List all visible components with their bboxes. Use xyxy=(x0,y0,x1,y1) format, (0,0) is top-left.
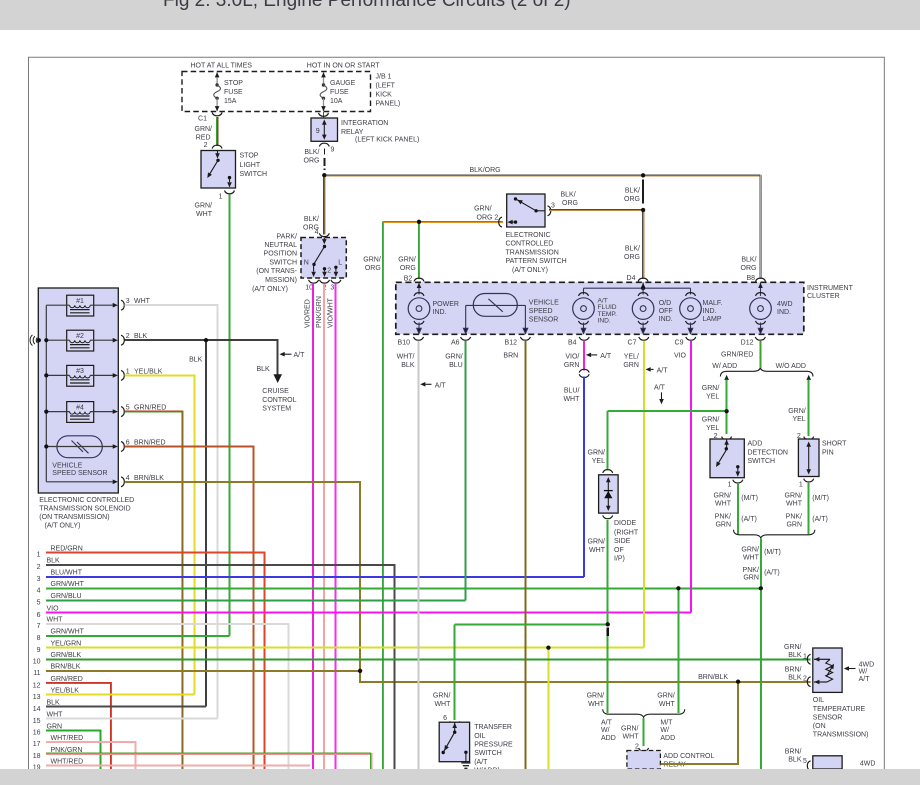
svg-text:BLK: BLK xyxy=(134,333,148,340)
svg-text:GRN/RED: GRN/RED xyxy=(721,352,753,359)
pin arrows at box edge xyxy=(113,303,118,308)
svg-text:YEL/GRN: YEL/GRN xyxy=(51,641,82,648)
svg-text:(M/T): (M/T) xyxy=(741,495,758,502)
wire 1 GRN/WHT stop light switch down to row 8 xyxy=(225,191,235,194)
svg-text:OF: OF xyxy=(614,547,624,554)
svg-text:BRN/: BRN/ xyxy=(785,666,802,673)
svg-text:PRESSURE: PRESSURE xyxy=(474,742,513,749)
BLK/ORG vertical to D4 xyxy=(642,210,644,279)
svg-text:A6: A6 xyxy=(451,339,460,346)
top pin cups B2 D4 B8 xyxy=(414,278,424,281)
row 10 GRN/BLK xyxy=(46,658,811,660)
lamp A/T FLUID TEMP IND xyxy=(573,293,595,334)
svg-text:WHT: WHT xyxy=(196,211,213,218)
svg-text:ORG: ORG xyxy=(304,157,320,164)
svg-text:OFF: OFF xyxy=(659,308,673,315)
BRN/BLK to oil temperature sensor xyxy=(736,680,740,684)
svg-text:9: 9 xyxy=(316,128,320,135)
svg-text:PARK/: PARK/ xyxy=(277,233,298,240)
svg-text:ORG: ORG xyxy=(400,265,416,272)
row 12 GRN/RED xyxy=(46,683,111,769)
svg-text:BLK: BLK xyxy=(47,558,61,565)
svg-text:MALF.: MALF. xyxy=(703,300,723,307)
svg-text:SWITCH: SWITCH xyxy=(269,259,297,266)
wire YEL/BLK pin1 xyxy=(125,375,195,694)
svg-text:C7: C7 xyxy=(628,339,637,346)
svg-text:6: 6 xyxy=(126,440,130,447)
svg-text:VIO: VIO xyxy=(674,353,687,360)
oil temperature sensor xyxy=(807,654,810,664)
svg-text:IND.: IND. xyxy=(703,308,717,315)
svg-text:18: 18 xyxy=(33,753,41,760)
svg-text:WHT: WHT xyxy=(715,501,732,508)
svg-text:A/T: A/T xyxy=(859,676,871,683)
svg-text:PIN: PIN xyxy=(822,449,834,456)
ground xyxy=(461,762,470,764)
svg-text:ADD: ADD xyxy=(660,735,675,742)
vehicle speed sensor (cluster) xyxy=(463,294,527,334)
svg-text:GRN/: GRN/ xyxy=(195,203,213,210)
svg-text:PNK/: PNK/ xyxy=(715,513,731,520)
svg-text:1: 1 xyxy=(126,368,130,375)
wire VIO/WHT pin 3 down xyxy=(335,284,337,769)
svg-text:ADD CONTROL: ADD CONTROL xyxy=(663,753,714,760)
svg-text:B8: B8 xyxy=(746,275,755,282)
B8 stub xyxy=(760,282,762,294)
svg-text:GAUGE: GAUGE xyxy=(330,80,356,87)
wire B10 WHT/BLK down xyxy=(418,341,420,769)
svg-text:1: 1 xyxy=(799,482,803,489)
svg-text:6: 6 xyxy=(443,715,447,722)
svg-text:(A/T): (A/T) xyxy=(764,569,780,576)
svg-text:VIO/: VIO/ xyxy=(565,354,579,361)
svg-text:(LEFT: (LEFT xyxy=(376,83,396,90)
svg-text:WHT: WHT xyxy=(563,396,580,403)
row 17 WHT/RED xyxy=(46,742,135,769)
row 4 GRN/WHT xyxy=(46,587,761,589)
black stub below junction xyxy=(606,628,609,636)
svg-text:GRN/BLK: GRN/BLK xyxy=(51,652,82,659)
svg-text:WHT: WHT xyxy=(659,701,676,708)
svg-text:BLK/: BLK/ xyxy=(304,216,319,223)
svg-text:ELECTRONIC CONTROLLED: ELECTRONIC CONTROLLED xyxy=(39,497,134,504)
svg-text:ADD: ADD xyxy=(748,441,763,448)
svg-text:GRN/: GRN/ xyxy=(363,257,381,264)
bottom pin cups xyxy=(414,337,424,340)
svg-text:C9: C9 xyxy=(675,339,684,346)
svg-text:B2: B2 xyxy=(404,275,413,282)
svg-text:BRN: BRN xyxy=(503,353,518,360)
svg-text:YEL: YEL xyxy=(792,416,805,423)
svg-text:3: 3 xyxy=(126,298,130,305)
svg-text:PNK/GRN: PNK/GRN xyxy=(51,747,83,754)
svg-text:B10: B10 xyxy=(398,339,411,346)
svg-text:(RIGHT: (RIGHT xyxy=(614,530,639,537)
BLK/ORG pattern switch pin3 horizontal xyxy=(549,209,643,211)
svg-text:IND.: IND. xyxy=(433,309,447,316)
svg-text:(ON TRANSMISSION): (ON TRANSMISSION) xyxy=(39,514,109,521)
svg-text:VIO/RED: VIO/RED xyxy=(305,299,312,328)
row 3 BLU/WHT xyxy=(46,576,584,578)
svg-text:A/T: A/T xyxy=(435,382,447,389)
svg-text:4: 4 xyxy=(315,229,319,236)
svg-text:(A/T: (A/T xyxy=(474,759,488,766)
internal bus xyxy=(46,305,114,482)
svg-text:A/T: A/T xyxy=(657,367,669,374)
svg-text:GRN/: GRN/ xyxy=(588,450,606,457)
wire BRN/BLK pin4 xyxy=(125,482,811,682)
svg-text:WHT: WHT xyxy=(623,733,640,740)
svg-text:15A: 15A xyxy=(224,98,237,105)
svg-text:SENSOR: SENSOR xyxy=(529,317,559,324)
svg-text:YEL: YEL xyxy=(592,458,605,465)
svg-text:4WD: 4WD xyxy=(860,761,876,768)
svg-text:(ON: (ON xyxy=(813,723,826,730)
svg-text:A/T: A/T xyxy=(600,353,612,360)
B2 stub xyxy=(418,282,420,294)
svg-text:ORG: ORG xyxy=(624,196,640,203)
svg-text:STOP: STOP xyxy=(224,80,243,87)
svg-text:LAMP: LAMP xyxy=(703,316,722,323)
svg-text:WHT: WHT xyxy=(588,701,605,708)
svg-text:GRN/: GRN/ xyxy=(587,693,605,700)
svg-text:IND.: IND. xyxy=(598,318,611,325)
svg-text:ORG 2: ORG 2 xyxy=(477,214,499,221)
svg-text:BLK/: BLK/ xyxy=(741,256,756,263)
svg-text:GRN: GRN xyxy=(715,522,731,529)
svg-text:BLK/ORG: BLK/ORG xyxy=(470,167,501,174)
svg-text:W/ ADD: W/ ADD xyxy=(712,363,737,370)
svg-text:GRN: GRN xyxy=(623,362,639,369)
svg-text:13: 13 xyxy=(33,694,41,701)
svg-text:YEL: YEL xyxy=(706,425,719,432)
svg-text:PNK/: PNK/ xyxy=(786,513,802,520)
svg-text:A/T: A/T xyxy=(601,719,613,726)
svg-text:2: 2 xyxy=(803,676,807,683)
svg-text:7: 7 xyxy=(37,623,41,630)
svg-text:BLK/: BLK/ xyxy=(561,191,576,198)
svg-text:WHT/RED: WHT/RED xyxy=(51,758,84,765)
svg-text:M/T: M/T xyxy=(660,719,673,726)
svg-text:NEUTRAL: NEUTRAL xyxy=(264,242,297,249)
row 2 BLK xyxy=(46,565,395,769)
svg-text:N: N xyxy=(304,260,309,267)
svg-text:W/: W/ xyxy=(859,669,868,676)
pins 10 2 3 below switch xyxy=(309,280,319,283)
BLK/ORG vertical to B8 xyxy=(759,175,761,279)
J/B 1 fuse block dashed box xyxy=(182,72,371,112)
wire B12 BRN down xyxy=(524,341,526,769)
svg-text:ORG: ORG xyxy=(624,254,640,261)
svg-text:4WD: 4WD xyxy=(859,661,875,668)
svg-text:GRN/RED: GRN/RED xyxy=(51,676,83,683)
svg-text:GRN/: GRN/ xyxy=(445,354,463,361)
svg-text:KICK: KICK xyxy=(376,92,393,99)
svg-text:SHORT: SHORT xyxy=(822,441,847,448)
solenoid #3 xyxy=(67,365,94,386)
add control relay xyxy=(627,751,661,770)
wire D12 GRN/RED down xyxy=(759,341,761,362)
svg-text:RED/GRN: RED/GRN xyxy=(51,545,83,552)
wire C9 VIO down to row 6 xyxy=(690,341,692,613)
svg-text:14: 14 xyxy=(33,706,41,713)
svg-text:RELAY: RELAY xyxy=(663,762,686,769)
svg-text:ADD: ADD xyxy=(601,735,616,742)
row 7 WHT xyxy=(46,624,289,769)
svg-text:A/T: A/T xyxy=(654,384,666,391)
svg-text:5: 5 xyxy=(803,758,807,765)
integration relay xyxy=(323,112,325,119)
row 1 RED/GRN xyxy=(46,553,265,770)
svg-text:I/P): I/P) xyxy=(614,555,625,562)
svg-text:WHT/: WHT/ xyxy=(397,354,415,361)
svg-text:W/O ADD: W/O ADD xyxy=(776,363,806,370)
svg-text:GRN/: GRN/ xyxy=(621,725,639,732)
svg-text:SPEED: SPEED xyxy=(529,308,553,315)
BLK/ORG long horizontal xyxy=(324,174,760,176)
svg-text:GRN/: GRN/ xyxy=(474,206,492,213)
row 16 GRN xyxy=(46,731,100,770)
svg-text:SIDE: SIDE xyxy=(614,538,631,545)
wire below add detection switch xyxy=(737,484,739,534)
branch left to transfer oil pressure switch xyxy=(455,623,608,625)
svg-text:#4: #4 xyxy=(76,404,84,411)
svg-text:GRN/: GRN/ xyxy=(195,126,213,133)
svg-text:#3: #3 xyxy=(76,368,84,375)
svg-text:BLK: BLK xyxy=(788,757,802,764)
svg-text:GRN/: GRN/ xyxy=(788,408,806,415)
svg-text:(LEFT KICK PANEL): (LEFT KICK PANEL) xyxy=(355,137,419,144)
svg-text:#2: #2 xyxy=(76,333,84,340)
lamp O/D OFF IND xyxy=(632,293,654,334)
junction dots overlay xyxy=(204,173,763,684)
svg-text:(ON TRANS-: (ON TRANS- xyxy=(256,268,297,275)
harness merge brace xyxy=(734,530,815,538)
svg-text:1: 1 xyxy=(219,194,223,201)
merged GRN/WHT stem down xyxy=(760,539,762,770)
BLK/ORG wire: relay down, dashed segment, junction dots xyxy=(323,149,325,155)
svg-text:VIO: VIO xyxy=(47,606,60,613)
instrument cluster dashed box xyxy=(396,282,804,334)
svg-text:GRN: GRN xyxy=(47,723,63,730)
add detection switch xyxy=(710,439,744,478)
wire VIO/RED pin 10 down xyxy=(312,284,314,769)
svg-text:VIO/WHT: VIO/WHT xyxy=(328,297,335,328)
svg-text:HOT IN ON OR START: HOT IN ON OR START xyxy=(307,63,380,70)
merge brace to add control relay xyxy=(603,709,685,717)
svg-text:INSTRUMENT: INSTRUMENT xyxy=(807,285,854,292)
svg-text:WHT: WHT xyxy=(589,547,606,554)
svg-text:4: 4 xyxy=(37,588,41,595)
svg-text:PNK/GRN: PNK/GRN xyxy=(316,296,323,328)
GRN/YEL vertical down to diode xyxy=(607,411,609,469)
svg-text:15: 15 xyxy=(33,718,41,725)
svg-text:2: 2 xyxy=(204,142,208,149)
svg-text:ELECTRONIC: ELECTRONIC xyxy=(506,232,551,239)
svg-text:DETECTION: DETECTION xyxy=(748,449,788,456)
svg-text:GRN/: GRN/ xyxy=(785,492,803,499)
svg-text:GRN/: GRN/ xyxy=(702,417,720,424)
svg-text:(A/T): (A/T) xyxy=(812,516,828,523)
row 8 GRN/WHT xyxy=(46,635,230,637)
svg-text:BLK: BLK xyxy=(189,357,203,364)
svg-text:BRN/: BRN/ xyxy=(785,749,802,756)
svg-text:WHT: WHT xyxy=(47,617,64,624)
svg-text:GRN/WHT: GRN/WHT xyxy=(51,581,85,588)
svg-text:(A/T ONLY): (A/T ONLY) xyxy=(252,286,288,293)
svg-text:WHT/RED: WHT/RED xyxy=(51,735,84,742)
svg-text:3: 3 xyxy=(330,284,334,291)
svg-text:2: 2 xyxy=(37,564,41,571)
svg-text:ORG: ORG xyxy=(741,265,757,272)
svg-text:CRUISE: CRUISE xyxy=(262,388,289,395)
svg-text:Fig 2: 3.0L, Engine Performanc: Fig 2: 3.0L, Engine Performance Circuits… xyxy=(163,0,571,11)
internal D4 distribution xyxy=(642,282,644,288)
svg-text:POSITION: POSITION xyxy=(264,251,297,258)
transfer oil pressure switch branch xyxy=(454,624,456,720)
wire C7 YEL/GRN down to row 9 xyxy=(643,341,645,648)
row 13 YEL/BLK xyxy=(46,694,195,696)
A/T arrow on BLK xyxy=(280,352,285,357)
svg-text:GRN: GRN xyxy=(786,522,802,529)
svg-text:3: 3 xyxy=(37,576,41,583)
svg-text:A/T: A/T xyxy=(294,352,306,359)
electronic controlled transmission solenoid box xyxy=(38,288,118,493)
wire GRN/RED pin5 xyxy=(125,412,183,769)
svg-text:TRANSMISSION): TRANSMISSION) xyxy=(813,732,869,739)
svg-text:O/D: O/D xyxy=(659,300,671,307)
svg-text:12: 12 xyxy=(33,682,41,689)
svg-text:D12: D12 xyxy=(741,339,754,346)
svg-text:8: 8 xyxy=(37,635,41,642)
lamp POWER IND xyxy=(408,293,430,334)
svg-text:BLK/: BLK/ xyxy=(304,149,319,156)
harness split to W/ADD and W/O ADD xyxy=(720,368,813,377)
svg-text:9: 9 xyxy=(37,647,41,654)
svg-text:YEL/BLK: YEL/BLK xyxy=(51,688,80,695)
svg-text:9: 9 xyxy=(331,147,335,154)
row 9 YEL/GRN xyxy=(46,647,644,649)
solenoid #4 xyxy=(67,402,94,423)
stop light switch xyxy=(201,151,236,189)
wire WHT pin3 xyxy=(125,305,218,718)
row 6 VIO xyxy=(46,612,691,614)
svg-text:FUSE: FUSE xyxy=(330,89,349,96)
svg-text:BLK/: BLK/ xyxy=(625,187,640,194)
lamp 4WD IND xyxy=(750,293,772,334)
svg-text:INTEGRATION: INTEGRATION xyxy=(341,120,388,127)
svg-text:BLK: BLK xyxy=(47,700,61,707)
svg-text:BRN/BLK: BRN/BLK xyxy=(134,475,164,482)
svg-text:LIGHT: LIGHT xyxy=(240,162,261,169)
svg-text:TRANSMISSION: TRANSMISSION xyxy=(506,249,559,256)
svg-text:SWITCH: SWITCH xyxy=(748,458,776,465)
GRN/WHT below diode xyxy=(607,520,609,625)
svg-text:YEL/BLK: YEL/BLK xyxy=(134,368,163,375)
svg-text:GRN/: GRN/ xyxy=(784,644,802,651)
svg-text:CLUSTER: CLUSTER xyxy=(807,293,840,300)
row 11 BRN/BLK xyxy=(46,670,360,672)
svg-text:PANEL): PANEL) xyxy=(376,101,401,108)
svg-text:YEL: YEL xyxy=(706,393,719,400)
svg-text:SYSTEM: SYSTEM xyxy=(262,406,291,413)
lamp MALF IND LAMP xyxy=(680,293,702,334)
wire PNK/GRN pin 2 down xyxy=(323,284,325,769)
vehicle speed sensor (solenoid box) xyxy=(57,436,102,458)
svg-text:BLK: BLK xyxy=(256,366,270,373)
svg-text:C1: C1 xyxy=(198,116,207,123)
svg-text:TRANSFER: TRANSFER xyxy=(474,724,512,731)
svg-text:PNK/: PNK/ xyxy=(743,567,759,574)
svg-text:BLK: BLK xyxy=(401,362,415,369)
svg-text:MISSION): MISSION) xyxy=(265,277,297,284)
svg-text:2: 2 xyxy=(327,268,331,275)
svg-text:BLU/WHT: BLU/WHT xyxy=(51,570,83,577)
svg-text:17: 17 xyxy=(33,741,41,748)
svg-text:(A/T ONLY): (A/T ONLY) xyxy=(512,267,548,274)
svg-text:2: 2 xyxy=(126,333,130,340)
wire A6 GRN/BLU down to row 5 xyxy=(465,341,467,600)
row 19 WHT/RED xyxy=(46,765,310,767)
svg-text:1: 1 xyxy=(803,653,807,660)
svg-text:WHT: WHT xyxy=(434,701,451,708)
svg-text:STOP: STOP xyxy=(240,153,259,160)
svg-text:PATTERN SWITCH: PATTERN SWITCH xyxy=(506,258,567,265)
svg-text:FUSE: FUSE xyxy=(224,89,243,96)
svg-text:ORG: ORG xyxy=(365,265,381,272)
bottom gray band xyxy=(0,769,920,785)
svg-text:#1: #1 xyxy=(76,298,84,305)
svg-text:BRN/RED: BRN/RED xyxy=(134,440,166,447)
svg-text:L: L xyxy=(338,260,342,267)
svg-text:(A/T ONLY): (A/T ONLY) xyxy=(45,523,81,530)
svg-text:HOT AT ALL TIMES: HOT AT ALL TIMES xyxy=(191,63,253,70)
svg-text:GRN/: GRN/ xyxy=(714,492,732,499)
svg-text:2: 2 xyxy=(635,743,639,750)
svg-text:SWITCH: SWITCH xyxy=(240,171,268,178)
svg-text:10: 10 xyxy=(33,659,41,666)
svg-text:BLU: BLU xyxy=(449,362,463,369)
svg-text:WHT: WHT xyxy=(786,501,803,508)
svg-text:BRN/BLK: BRN/BLK xyxy=(698,674,728,681)
svg-text:GRN/BLU: GRN/BLU xyxy=(51,593,82,600)
svg-text:10A: 10A xyxy=(330,98,343,105)
svg-text:OIL: OIL xyxy=(474,733,485,740)
svg-text:GRN/: GRN/ xyxy=(588,539,606,546)
svg-text:ORG: ORG xyxy=(562,200,578,207)
wire B4 VIO/GRN then BLU/WHT down to row 3 xyxy=(583,341,585,370)
wire GRN/YEL left branch to add detection switch xyxy=(726,380,728,434)
BLK/ORG vertical to park/neutral switch pin 4 xyxy=(323,175,325,234)
svg-text:SPEED SENSOR: SPEED SENSOR xyxy=(52,470,107,477)
svg-text:BLK: BLK xyxy=(788,652,802,659)
svg-text:BLU/: BLU/ xyxy=(564,388,580,395)
row 15 WHT xyxy=(46,718,218,720)
svg-text:4: 4 xyxy=(126,475,130,482)
svg-text:(M/T): (M/T) xyxy=(764,549,781,556)
GRN/WHT right branch (from row 4 junction) xyxy=(677,588,679,713)
solenoid #2 xyxy=(67,330,94,351)
BLK/ORG dashed link segment xyxy=(642,179,644,203)
ECT pattern switch xyxy=(499,217,502,227)
wire BRN/RED pin6 xyxy=(125,447,254,770)
svg-text:CONTROLLED: CONTROLLED xyxy=(506,241,554,248)
svg-text:GRN/: GRN/ xyxy=(433,693,451,700)
svg-text:11: 11 xyxy=(33,670,40,677)
svg-text:GRN/: GRN/ xyxy=(398,257,416,264)
svg-text:D4: D4 xyxy=(627,275,636,282)
svg-text:VEHICLE: VEHICLE xyxy=(52,463,82,470)
